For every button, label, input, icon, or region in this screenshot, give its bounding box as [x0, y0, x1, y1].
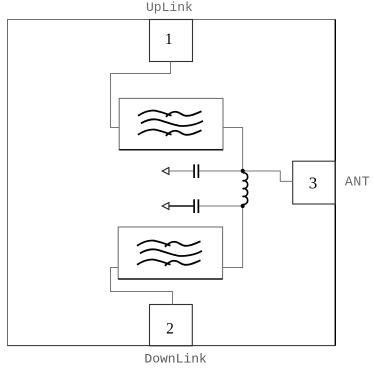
svg-text:2: 2 [166, 321, 174, 338]
svg-text:ANT: ANT [345, 175, 370, 190]
svg-text:UpLink: UpLink [146, 0, 193, 15]
svg-text:3: 3 [309, 174, 318, 193]
svg-text:DownLink: DownLink [144, 352, 207, 367]
svg-text:1: 1 [165, 31, 173, 48]
